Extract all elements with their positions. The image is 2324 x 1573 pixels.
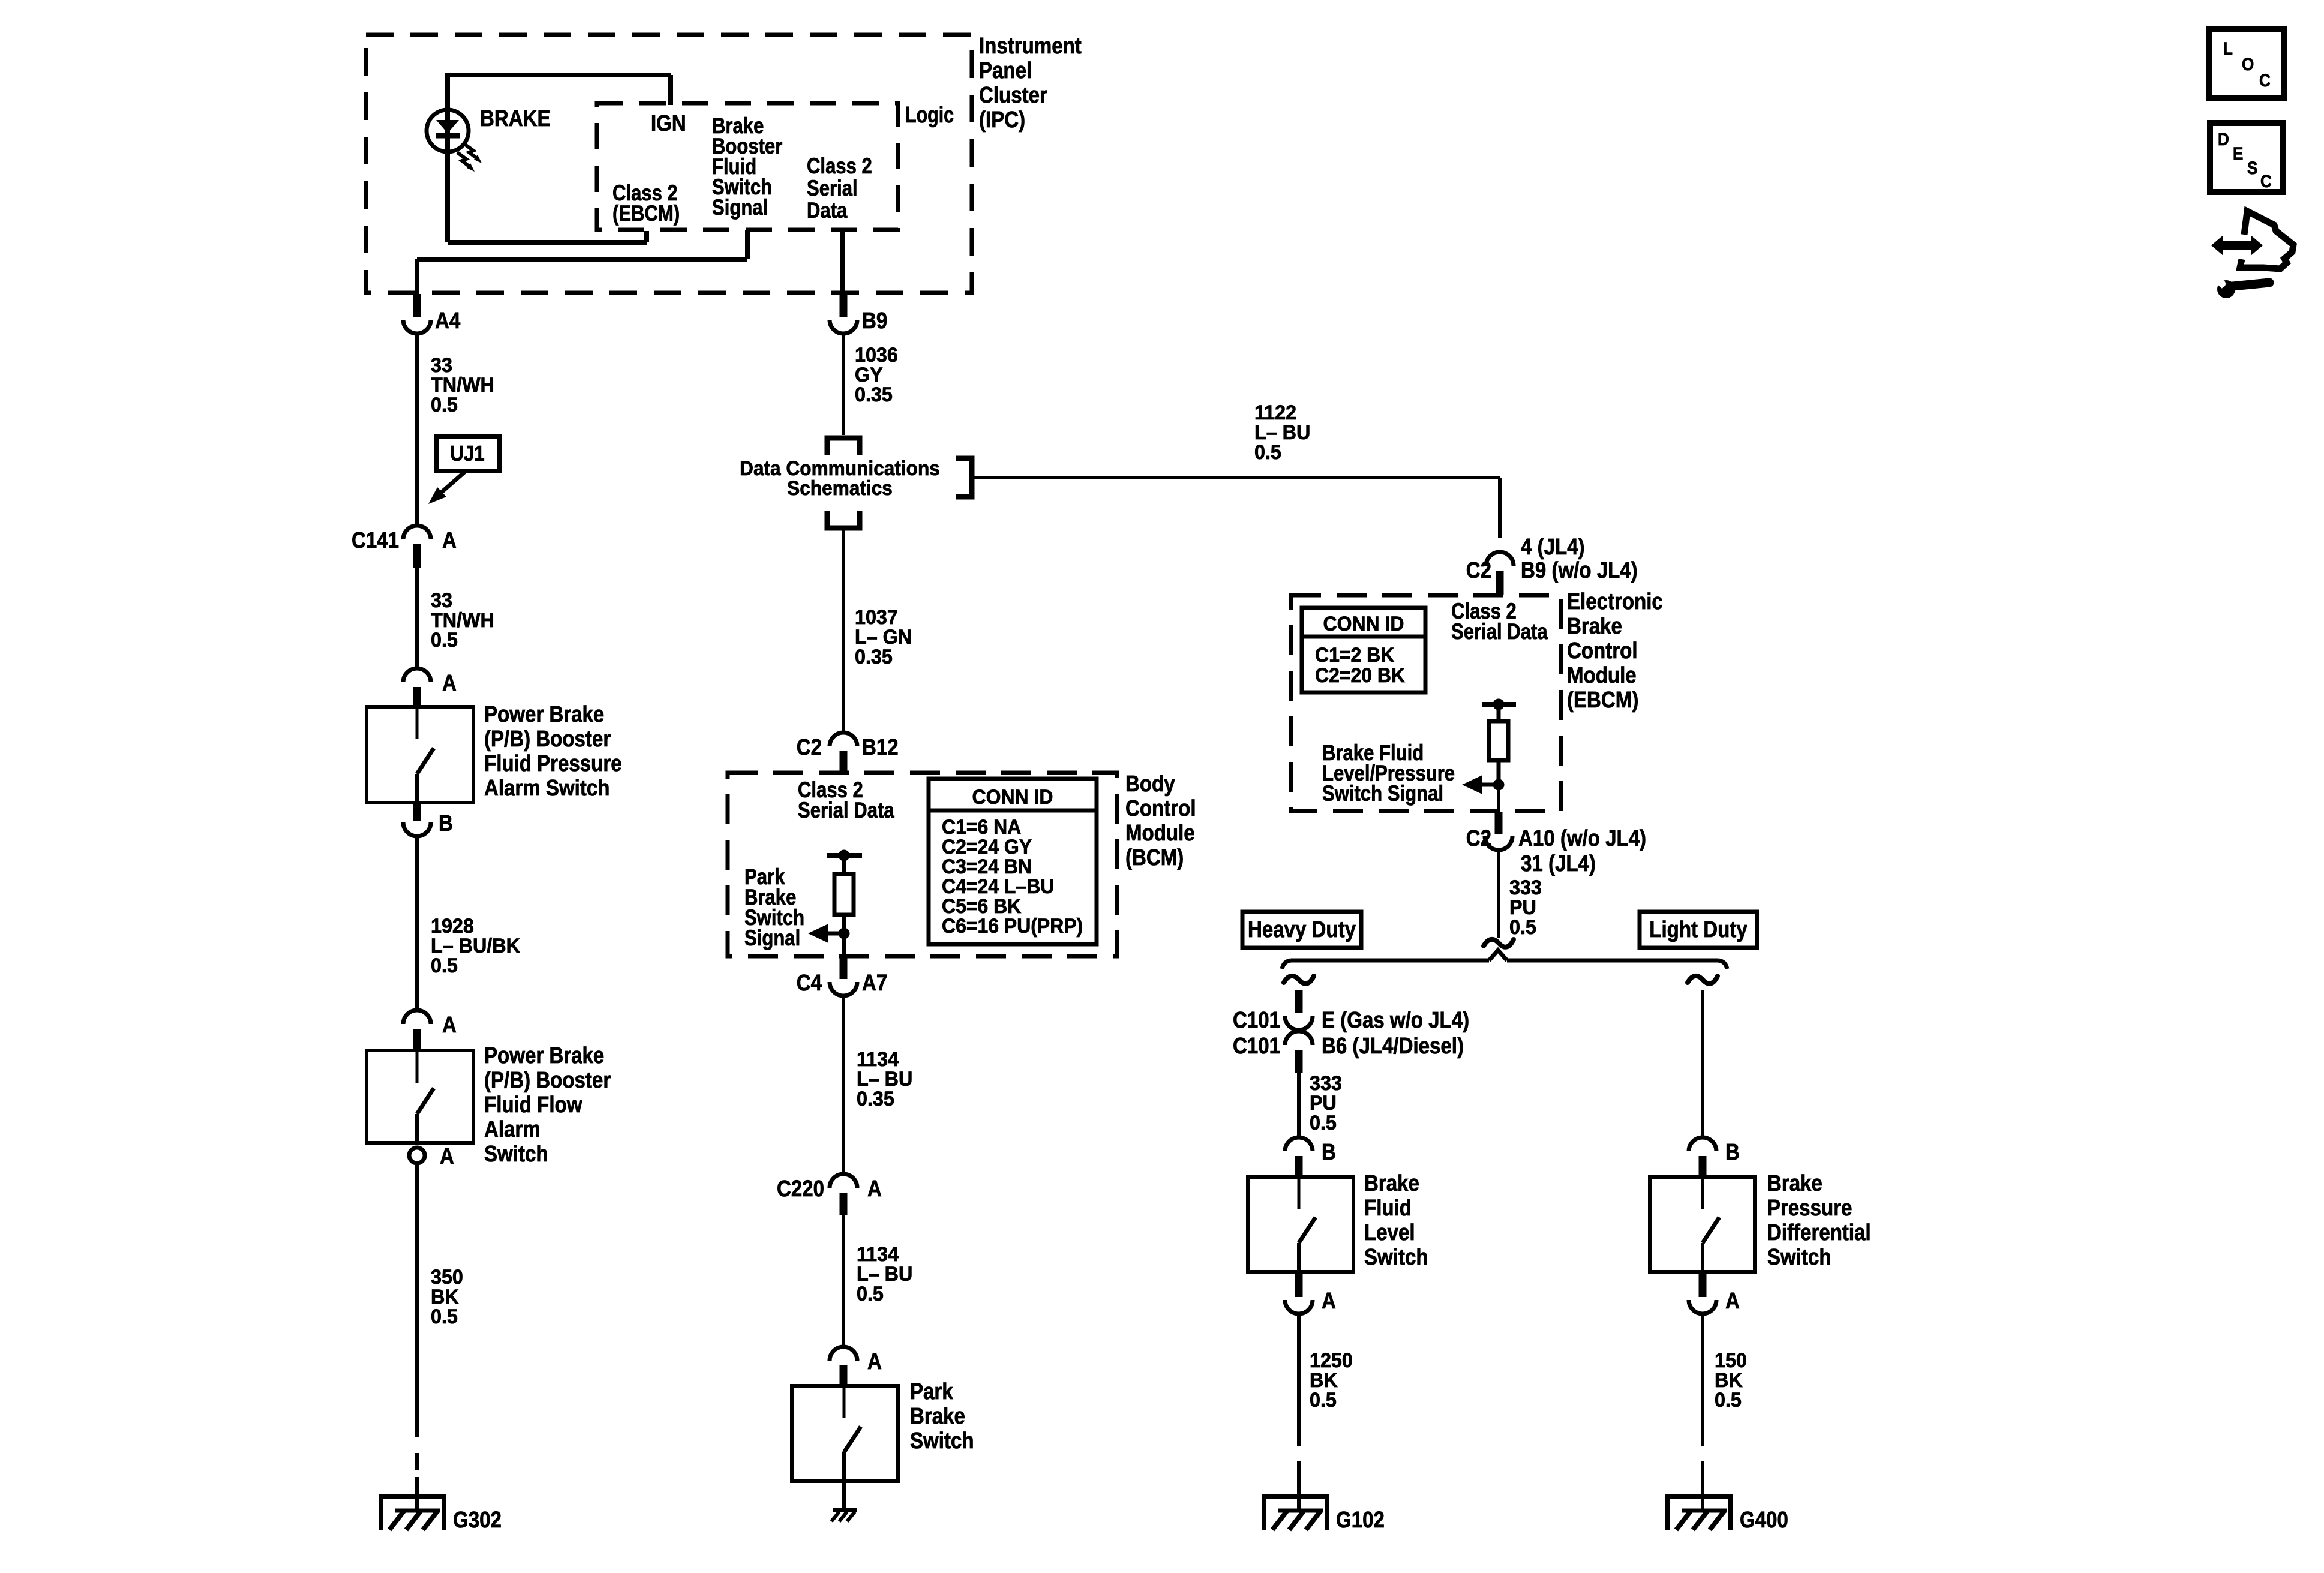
svg-text:4 (JL4): 4 (JL4)	[1521, 534, 1585, 560]
svg-text:Differential: Differential	[1767, 1220, 1871, 1245]
svg-text:Power Brake: Power Brake	[484, 701, 604, 727]
svg-text:B: B	[1725, 1139, 1740, 1165]
svg-text:Cluster: Cluster	[979, 82, 1047, 108]
svg-text:C: C	[2260, 171, 2272, 191]
svg-text:A: A	[1725, 1288, 1740, 1314]
svg-text:Alarm Switch: Alarm Switch	[484, 775, 609, 801]
svg-text:0.5: 0.5	[1509, 916, 1536, 939]
svg-text:Switch: Switch	[1767, 1244, 1831, 1270]
svg-text:C2: C2	[797, 734, 822, 760]
svg-text:Body: Body	[1125, 771, 1175, 797]
svg-text:Fluid: Fluid	[1364, 1195, 1412, 1221]
svg-text:S: S	[2247, 158, 2257, 178]
svg-text:Serial Data: Serial Data	[798, 798, 895, 823]
svg-text:C6=16 PU(PRP): C6=16 PU(PRP)	[942, 914, 1083, 937]
svg-text:Alarm: Alarm	[484, 1116, 541, 1142]
svg-text:C141: C141	[352, 527, 399, 553]
svg-text:A: A	[1322, 1288, 1336, 1314]
svg-text:Pressure: Pressure	[1767, 1195, 1852, 1221]
svg-text:A: A	[867, 1176, 882, 1202]
svg-text:O: O	[2242, 54, 2254, 74]
svg-text:Signal: Signal	[712, 196, 768, 220]
svg-text:C2=20 BK: C2=20 BK	[1315, 664, 1405, 686]
svg-text:0.35: 0.35	[855, 646, 893, 668]
svg-text:0.5: 0.5	[1310, 1389, 1337, 1412]
svg-text:G102: G102	[1336, 1507, 1385, 1533]
svg-text:L: L	[2223, 38, 2233, 58]
svg-text:B: B	[1322, 1139, 1336, 1165]
svg-text:UJ1: UJ1	[450, 442, 484, 466]
svg-text:C1=2 BK: C1=2 BK	[1315, 643, 1394, 666]
svg-text:BRAKE: BRAKE	[480, 106, 551, 131]
svg-text:B12: B12	[862, 734, 899, 760]
svg-text:Serial Data: Serial Data	[1451, 620, 1548, 644]
svg-text:D: D	[2218, 129, 2229, 149]
svg-text:(EBCM): (EBCM)	[1567, 687, 1638, 713]
svg-text:Fluid Flow: Fluid Flow	[484, 1092, 582, 1118]
svg-text:C220: C220	[777, 1176, 824, 1202]
svg-text:(BCM): (BCM)	[1125, 845, 1184, 870]
svg-text:Control: Control	[1125, 795, 1196, 821]
svg-text:Class 2: Class 2	[807, 154, 872, 179]
svg-text:A: A	[867, 1349, 882, 1374]
svg-text:Electronic: Electronic	[1567, 589, 1663, 614]
svg-text:Power Brake: Power Brake	[484, 1043, 604, 1068]
svg-text:Switch: Switch	[1364, 1244, 1428, 1270]
svg-text:0.35: 0.35	[857, 1088, 894, 1110]
svg-text:(IPC): (IPC)	[979, 107, 1025, 133]
svg-text:Switch Signal: Switch Signal	[1322, 782, 1443, 806]
svg-text:0.5: 0.5	[431, 394, 458, 416]
svg-text:31 (JL4): 31 (JL4)	[1521, 851, 1596, 876]
svg-text:Module: Module	[1567, 662, 1637, 688]
svg-text:Switch: Switch	[484, 1141, 548, 1167]
svg-text:Switch: Switch	[910, 1428, 974, 1454]
svg-text:Level: Level	[1364, 1220, 1415, 1245]
svg-text:Park: Park	[910, 1379, 953, 1404]
svg-text:0.5: 0.5	[1310, 1112, 1337, 1134]
svg-text:A: A	[442, 527, 457, 553]
svg-text:E: E	[2233, 143, 2243, 163]
svg-text:C101: C101	[1233, 1007, 1280, 1033]
svg-text:Schematics: Schematics	[787, 476, 893, 499]
svg-text:Brake: Brake	[910, 1403, 965, 1429]
svg-text:B6 (JL4/Diesel): B6 (JL4/Diesel)	[1322, 1033, 1464, 1059]
svg-text:0.35: 0.35	[855, 383, 893, 406]
svg-text:IGN: IGN	[651, 110, 686, 136]
svg-text:Serial: Serial	[807, 176, 858, 201]
svg-text:B: B	[439, 810, 453, 836]
svg-text:A: A	[442, 1012, 457, 1038]
svg-text:G302: G302	[453, 1507, 502, 1533]
svg-text:C2: C2	[1466, 557, 1491, 583]
svg-text:CONN ID: CONN ID	[972, 785, 1053, 808]
svg-text:C4: C4	[797, 970, 822, 996]
svg-text:(P/B) Booster: (P/B) Booster	[484, 1067, 611, 1093]
svg-text:Brake: Brake	[1567, 613, 1622, 639]
svg-text:A: A	[440, 1143, 454, 1169]
svg-text:(P/B) Booster: (P/B) Booster	[484, 726, 611, 752]
svg-text:Control: Control	[1567, 638, 1638, 664]
svg-text:A4: A4	[435, 308, 460, 334]
svg-text:B9: B9	[862, 308, 887, 334]
svg-text:E (Gas w/o JL4): E (Gas w/o JL4)	[1322, 1007, 1469, 1033]
svg-text:Brake: Brake	[1767, 1170, 1822, 1196]
svg-text:A7: A7	[862, 970, 887, 996]
svg-text:C: C	[2259, 70, 2271, 90]
svg-text:A: A	[442, 670, 457, 696]
svg-text:G400: G400	[1740, 1507, 1788, 1533]
svg-text:0.5: 0.5	[857, 1283, 884, 1305]
svg-text:CONN ID: CONN ID	[1323, 612, 1404, 635]
svg-text:0.5: 0.5	[1254, 441, 1281, 464]
svg-text:Signal: Signal	[744, 926, 800, 951]
svg-text:A10 (w/o JL4): A10 (w/o JL4)	[1518, 825, 1646, 851]
svg-text:Logic: Logic	[905, 103, 954, 128]
svg-text:Light Duty: Light Duty	[1649, 917, 1747, 942]
svg-text:Brake: Brake	[1364, 1170, 1419, 1196]
svg-text:B9 (w/o JL4): B9 (w/o JL4)	[1521, 557, 1638, 583]
svg-text:Heavy Duty: Heavy Duty	[1248, 917, 1356, 942]
svg-text:Module: Module	[1125, 820, 1195, 846]
svg-text:0.5: 0.5	[1715, 1389, 1742, 1412]
svg-text:Panel: Panel	[979, 58, 1032, 83]
svg-text:Data: Data	[807, 199, 848, 223]
svg-text:0.5: 0.5	[431, 954, 458, 977]
svg-text:C101: C101	[1233, 1033, 1280, 1059]
svg-text:Instrument: Instrument	[979, 33, 1082, 59]
svg-text:0.5: 0.5	[431, 629, 458, 652]
svg-text:(EBCM): (EBCM)	[612, 202, 680, 226]
svg-text:0.5: 0.5	[431, 1305, 458, 1328]
svg-text:C2: C2	[1466, 825, 1491, 851]
svg-text:Fluid Pressure: Fluid Pressure	[484, 751, 622, 776]
